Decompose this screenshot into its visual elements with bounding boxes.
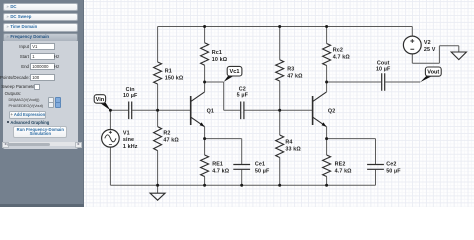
svg-text:10 µF: 10 µF	[123, 93, 138, 99]
svg-text:33 kΩ: 33 kΩ	[285, 146, 301, 152]
svg-text:47 kΩ: 47 kΩ	[163, 137, 179, 143]
svg-text:10 µF: 10 µF	[376, 66, 391, 72]
svg-text:Vin: Vin	[96, 97, 105, 103]
svg-text:Vout: Vout	[427, 69, 439, 75]
svg-text:R2: R2	[163, 130, 170, 136]
svg-text:R4: R4	[285, 139, 292, 145]
svg-text:47 kΩ: 47 kΩ	[287, 74, 303, 80]
svg-text:Q1: Q1	[207, 108, 214, 114]
svg-text:10 kΩ: 10 kΩ	[212, 57, 228, 63]
svg-text:R1: R1	[165, 69, 172, 75]
svg-text:4.7 kΩ: 4.7 kΩ	[212, 169, 230, 175]
svg-text:1 kHz: 1 kHz	[123, 144, 138, 150]
svg-text:RE1: RE1	[212, 162, 223, 168]
svg-text:RE2: RE2	[335, 162, 346, 168]
svg-text:Ce1: Ce1	[255, 162, 265, 168]
svg-text:R3: R3	[287, 67, 294, 73]
svg-text:Vc1: Vc1	[230, 69, 240, 75]
svg-text:50 µF: 50 µF	[386, 169, 401, 175]
svg-text:V2: V2	[424, 40, 431, 46]
svg-text:50 µF: 50 µF	[255, 169, 270, 175]
svg-text:25 V: 25 V	[424, 47, 436, 53]
svg-text:V1: V1	[123, 130, 130, 136]
svg-text:Rc1: Rc1	[212, 50, 222, 56]
svg-text:Ce2: Ce2	[386, 162, 396, 168]
svg-text:5 µF: 5 µF	[237, 93, 249, 99]
svg-text:4.7 kΩ: 4.7 kΩ	[335, 169, 353, 175]
svg-text:4.7 kΩ: 4.7 kΩ	[333, 55, 351, 61]
svg-text:150 kΩ: 150 kΩ	[165, 76, 184, 82]
svg-text:Rc2: Rc2	[333, 48, 343, 54]
svg-text:Q2: Q2	[328, 108, 335, 114]
svg-text:sine: sine	[123, 137, 134, 143]
